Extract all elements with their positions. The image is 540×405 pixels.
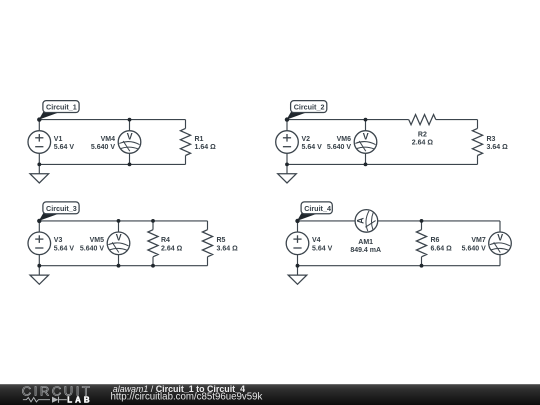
svg-text:5.64 V: 5.64 V [312,246,333,253]
svg-text:5.640 V: 5.640 V [91,144,115,151]
svg-text:V2: V2 [302,136,311,143]
svg-text:http://circuitlab.com/c85t96ue: http://circuitlab.com/c85t96ue9v59k [111,391,263,402]
svg-text:V: V [363,131,369,141]
svg-text:V: V [127,131,133,141]
svg-text:Circuit_2: Circuit_2 [294,103,325,112]
svg-text:Ciruit_4: Ciruit_4 [304,204,331,213]
svg-text:5.640 V: 5.640 V [80,246,104,253]
svg-text:V1: V1 [54,136,63,143]
svg-text:R5: R5 [217,237,226,244]
svg-text:3.64 Ω: 3.64 Ω [487,144,509,151]
svg-text:Circuit_1: Circuit_1 [46,103,77,112]
svg-text:V: V [116,233,122,243]
svg-text:VM6: VM6 [337,136,352,143]
svg-text:5.64 V: 5.64 V [54,144,75,151]
svg-text:3.64 Ω: 3.64 Ω [217,246,239,253]
svg-text:V3: V3 [54,237,63,244]
svg-text:2.64 Ω: 2.64 Ω [161,246,183,253]
svg-text:VM7: VM7 [471,237,486,244]
svg-text:R4: R4 [161,237,170,244]
svg-text:5.640 V: 5.640 V [462,246,486,253]
svg-text:R3: R3 [487,136,496,143]
svg-text:A: A [356,217,366,224]
svg-text:5.640 V: 5.640 V [327,144,351,151]
svg-text:LAB: LAB [67,395,93,404]
svg-text:VM4: VM4 [101,136,116,143]
svg-text:Circuit_3: Circuit_3 [46,204,77,213]
svg-text:6.64 Ω: 6.64 Ω [431,246,453,253]
svg-text:V: V [497,233,503,243]
svg-text:2.64 Ω: 2.64 Ω [412,140,434,147]
svg-text:849.4 mA: 849.4 mA [350,247,381,254]
svg-text:AM1: AM1 [358,239,373,246]
svg-text:V4: V4 [312,237,321,244]
svg-text:R1: R1 [195,136,204,143]
svg-text:VM5: VM5 [90,237,105,244]
svg-text:R2: R2 [418,131,427,138]
svg-text:5.64 V: 5.64 V [54,246,75,253]
svg-text:1.64 Ω: 1.64 Ω [195,144,217,151]
svg-text:5.64 V: 5.64 V [302,144,323,151]
svg-text:R6: R6 [431,237,440,244]
